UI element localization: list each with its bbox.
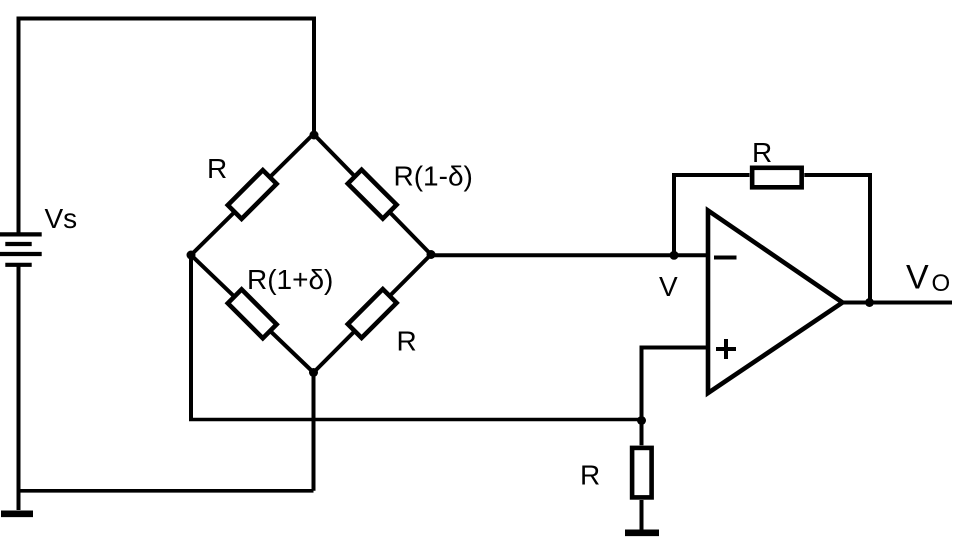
- node output: [865, 298, 874, 307]
- wire bridge arm bottom-left: [191, 255, 314, 373]
- resistor R (bridge top-left): [228, 170, 277, 219]
- node bridge left: [187, 251, 196, 260]
- battery Vs plate 1 (long): [0, 232, 42, 236]
- svg-text:R(1+δ): R(1+δ): [247, 264, 333, 295]
- node bridge right: [427, 250, 436, 259]
- node feedback junction: [670, 251, 679, 260]
- node bridge bottom: [309, 368, 318, 377]
- op-amp plus sign: [716, 339, 736, 359]
- op-amp U1: [708, 211, 843, 394]
- wire resistor to ground: [640, 500, 644, 531]
- svg-text:Vs: Vs: [45, 203, 78, 234]
- svg-text:V: V: [659, 271, 678, 302]
- wire feedback down to output: [868, 173, 872, 303]
- wire bottom rail: [17, 489, 314, 493]
- svg-text:R: R: [397, 326, 417, 357]
- battery Vs plate 3 (long): [0, 252, 42, 256]
- svg-text:O: O: [932, 270, 951, 297]
- wire battery bottom down: [17, 265, 21, 510]
- resistor R(1+&#948;) (bridge bottom-left): [228, 289, 277, 338]
- wire bridge arm top-left: [191, 134, 314, 255]
- wire bridge arm top-right: [314, 134, 432, 255]
- wire feedback up: [672, 175, 676, 255]
- node bridge top: [310, 131, 319, 140]
- wire bridge left node down: [189, 255, 193, 420]
- wire plus horizontal into op-amp: [640, 346, 708, 350]
- wire to op-amp plus junction: [189, 418, 642, 422]
- wire feedback top left segment: [672, 173, 750, 177]
- wire battery top to top rail: [17, 17, 21, 235]
- node plus junction: [637, 416, 646, 425]
- wire bridge arm bottom-right: [314, 255, 432, 373]
- wire top rail down to bridge top node: [312, 17, 316, 136]
- wire plus vertical: [640, 348, 644, 446]
- resistor R (to ground): [632, 448, 652, 498]
- svg-text:R: R: [207, 153, 227, 184]
- svg-text:R: R: [752, 137, 772, 168]
- wire output: [841, 301, 952, 305]
- wire top rail: [17, 17, 315, 21]
- ground bar bottom-right: [625, 529, 659, 536]
- svg-text:R: R: [580, 460, 600, 491]
- op-amp minus sign: [714, 256, 737, 260]
- battery Vs plate 2 (short): [5, 242, 31, 246]
- battery Vs plate 4 (short): [5, 263, 31, 267]
- svg-text:V: V: [906, 259, 929, 297]
- ground bar bottom-left: [1, 510, 33, 517]
- wire feedback top right segment: [804, 173, 872, 177]
- svg-text:R(1-δ): R(1-δ): [394, 161, 473, 192]
- wire bridge right node to inverting input: [431, 253, 707, 257]
- resistor R(1-&#948;) (bridge top-right): [348, 170, 397, 219]
- resistor R (feedback): [752, 168, 802, 188]
- wire bridge bottom node down to bottom rail: [312, 373, 316, 491]
- resistor R (bridge bottom-right): [348, 289, 397, 338]
